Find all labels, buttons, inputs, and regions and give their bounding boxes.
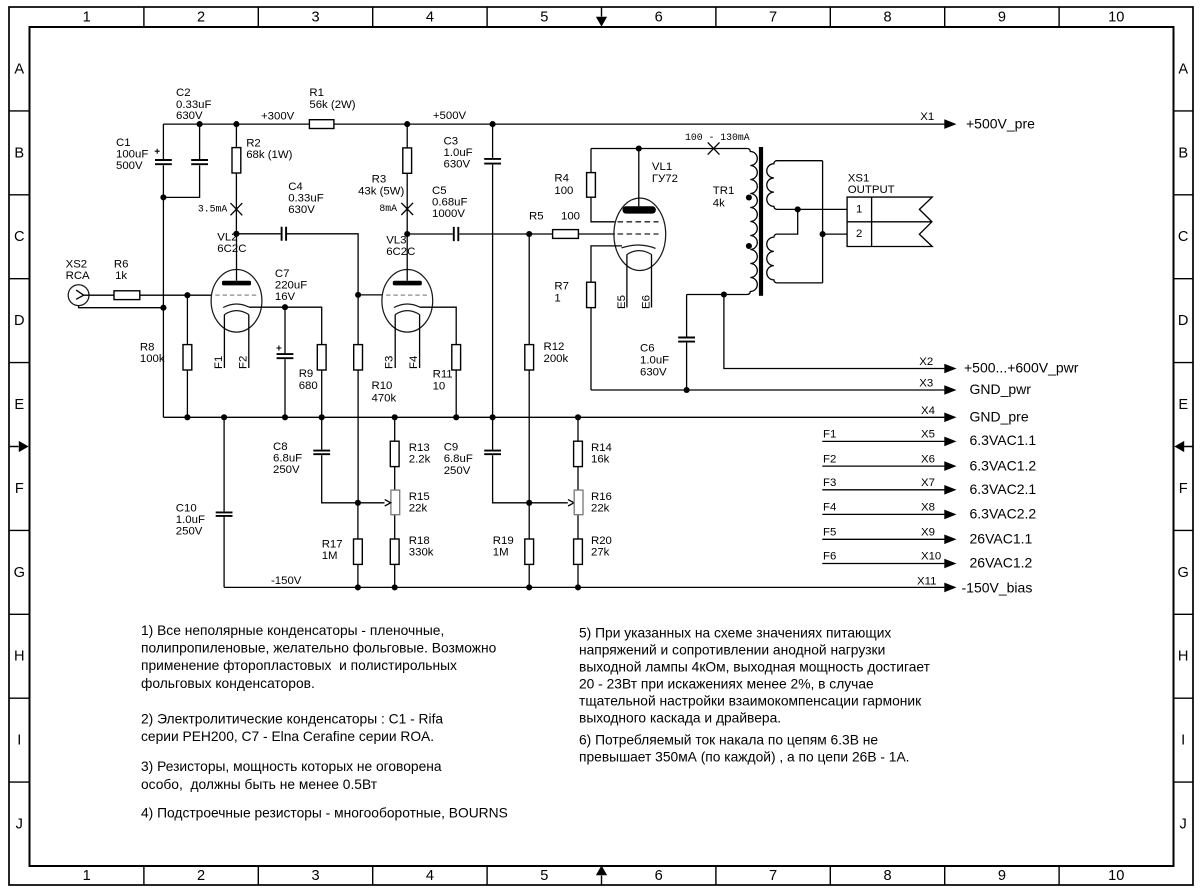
node primary tap 1 <box>746 194 752 200</box>
resistor R1 <box>309 120 334 129</box>
label R8 <box>140 342 165 366</box>
svg-text:F3: F3 <box>823 477 836 489</box>
label VL3 <box>386 235 415 259</box>
svg-text:F1: F1 <box>213 356 225 369</box>
transformer TR1 secondary 1 <box>767 161 847 210</box>
svg-text:R8: R8 <box>140 342 155 354</box>
svg-text:16V: 16V <box>275 291 296 303</box>
svg-text:F3: F3 <box>384 356 396 369</box>
svg-text:22k: 22k <box>591 503 610 515</box>
notes column 2 <box>579 625 931 764</box>
svg-text:XS2: XS2 <box>66 258 88 270</box>
svg-text:X11: X11 <box>917 575 936 587</box>
wire VL2 anode to C4 to VL3 grid <box>236 234 382 295</box>
wire R14 R16 R20 column <box>577 417 579 587</box>
svg-text:R6: R6 <box>114 258 129 270</box>
label VL2 <box>217 231 246 255</box>
notes column 1 <box>141 623 508 821</box>
svg-text:E6: E6 <box>641 295 653 309</box>
svg-text:100 - 130mA: 100 - 130mA <box>685 132 750 143</box>
svg-text:R7: R7 <box>554 280 569 292</box>
node C7 top <box>282 304 288 310</box>
wire secondary right link <box>823 161 848 283</box>
svg-text:R5: R5 <box>529 210 544 222</box>
connector XS2 RCA <box>68 285 89 306</box>
wire C6 branch <box>686 295 688 391</box>
capacitor C3 <box>484 159 501 164</box>
svg-text:7: 7 <box>769 10 777 26</box>
svg-text:E: E <box>14 397 24 413</box>
svg-text:R15: R15 <box>409 491 430 503</box>
wire C10 branch <box>223 417 225 587</box>
wire C7 branch <box>284 307 286 417</box>
wire X5-X10 heater stubs <box>822 441 944 563</box>
wire ground bus from C1 to GND rail <box>162 124 164 417</box>
node VL3 anode junction <box>404 231 410 237</box>
svg-text:2.2k: 2.2k <box>409 453 431 465</box>
svg-text:R14: R14 <box>591 442 612 454</box>
node C1-C2 junction <box>160 194 166 200</box>
svg-text:10: 10 <box>433 381 446 393</box>
wire VL2 cathode to R9 <box>249 307 322 344</box>
node rail R11 <box>453 414 459 420</box>
svg-text:3: 3 <box>311 10 319 26</box>
svg-text:H: H <box>14 649 25 665</box>
label R18 <box>409 535 434 559</box>
svg-text:C7: C7 <box>275 268 290 280</box>
svg-text:4: 4 <box>426 10 434 26</box>
node C3 top <box>490 121 496 127</box>
label C6 <box>640 342 669 378</box>
wire R10 branch <box>357 295 359 503</box>
svg-text:68k (1W): 68k (1W) <box>246 149 292 161</box>
svg-text:X10: X10 <box>921 551 941 563</box>
svg-text:630V: 630V <box>288 204 315 216</box>
triode VL2 <box>211 234 262 368</box>
resistor R14 <box>574 441 583 466</box>
svg-text:4k: 4k <box>713 198 725 210</box>
svg-text:16k: 16k <box>591 453 610 465</box>
wire C3 branch <box>492 124 494 417</box>
node C2 top <box>197 121 203 127</box>
svg-text:применение фторопластовых и п: применение фторопластовых и полистирольн… <box>141 658 457 673</box>
svg-text:F: F <box>1179 481 1188 497</box>
resistor R6 <box>114 291 140 300</box>
wire R19 branch <box>528 503 530 588</box>
capacitor C9 <box>484 451 501 455</box>
node -150 R19 <box>526 584 532 590</box>
node rail R8 <box>184 414 190 420</box>
svg-text:G: G <box>14 565 25 581</box>
label VL1 <box>652 161 678 185</box>
svg-text:R10: R10 <box>372 380 393 392</box>
transformer TR1 secondary 2 <box>767 209 823 283</box>
wire R3 branch <box>406 124 408 234</box>
capacitor C2 <box>191 160 208 164</box>
svg-text:выходной лампы 4кОм, выходная: выходной лампы 4кОм, выходная мощность д… <box>579 659 931 674</box>
label R4 <box>554 173 573 197</box>
wire VL3 cathode to R11 <box>420 307 457 344</box>
node shield to ground bus <box>160 305 166 311</box>
svg-text:VL2: VL2 <box>217 231 237 243</box>
resistor R20 <box>574 539 583 564</box>
svg-text:1: 1 <box>83 10 91 26</box>
resistor R4 <box>587 173 596 198</box>
label C8 <box>273 441 302 476</box>
svg-text:R9: R9 <box>299 368 314 380</box>
wire R17 branch <box>357 503 359 588</box>
wire X4 GND_pre rail <box>163 416 944 418</box>
svg-text:9: 9 <box>998 868 1006 884</box>
svg-text:R11: R11 <box>433 369 453 381</box>
svg-text:R20: R20 <box>591 535 612 547</box>
svg-text:5: 5 <box>540 10 548 26</box>
label R15 <box>409 491 430 515</box>
node R3 top <box>404 121 410 127</box>
svg-text:R17: R17 <box>322 539 343 551</box>
svg-text:I: I <box>1181 733 1185 749</box>
svg-text:R4: R4 <box>554 173 569 185</box>
svg-text:26VAC1.2: 26VAC1.2 <box>970 555 1033 571</box>
node -150 R17 <box>355 584 361 590</box>
wire R9 bottom <box>321 370 323 417</box>
svg-text:GND_pwr: GND_pwr <box>970 381 1032 397</box>
label R12 <box>544 341 569 365</box>
wire R2 branch <box>235 124 237 234</box>
svg-text:X1: X1 <box>920 111 934 123</box>
svg-text:+500...+600V_pwr: +500...+600V_pwr <box>964 360 1079 376</box>
svg-text:X9: X9 <box>921 527 935 539</box>
svg-text:1: 1 <box>554 292 560 304</box>
svg-text:470k: 470k <box>372 392 397 404</box>
svg-text:2: 2 <box>197 868 205 884</box>
svg-text:C8: C8 <box>273 441 288 453</box>
resistor R13 <box>390 441 399 466</box>
svg-text:10: 10 <box>1108 10 1124 26</box>
svg-text:+500V_pre: +500V_pre <box>966 115 1035 131</box>
svg-text:GND_pre: GND_pre <box>970 409 1029 425</box>
wire -150V rail X11 <box>224 586 944 588</box>
capacitor C6 <box>678 338 695 342</box>
node rail R14 <box>575 414 581 420</box>
svg-text:R13: R13 <box>409 442 430 454</box>
svg-text:9: 9 <box>998 10 1006 26</box>
svg-text:C4: C4 <box>288 181 303 193</box>
capacitor C4 <box>282 227 287 241</box>
svg-text:TR1: TR1 <box>713 185 735 197</box>
svg-text:4) Подстроечные резисторы - мн: 4) Подстроечные резисторы - многооборотн… <box>141 805 508 820</box>
svg-text:F4: F4 <box>823 502 836 514</box>
svg-text:E5: E5 <box>616 295 628 309</box>
node R12 top junction <box>526 231 532 237</box>
wiper R15 <box>358 500 391 506</box>
svg-text:1k: 1k <box>115 270 127 282</box>
label R2 <box>246 137 292 161</box>
svg-text:100: 100 <box>561 210 580 222</box>
trimmer R15 <box>391 490 400 515</box>
current cross 8mA <box>401 203 413 215</box>
svg-text:3: 3 <box>311 868 319 884</box>
svg-text:43k (5W): 43k (5W) <box>358 186 404 198</box>
svg-text:1M: 1M <box>322 550 338 562</box>
capacitor C7 <box>276 346 293 359</box>
resistor R7 <box>587 282 596 307</box>
svg-text:C: C <box>1178 229 1189 245</box>
svg-text:C3: C3 <box>444 135 459 147</box>
svg-text:-150V_bias: -150V_bias <box>962 579 1033 595</box>
svg-text:R19: R19 <box>493 535 514 547</box>
label R16 <box>591 491 612 515</box>
svg-text:7: 7 <box>769 868 777 884</box>
node VL2 grid junction <box>184 292 190 298</box>
node C6 bottom <box>684 387 690 393</box>
current cross 100-130mA <box>708 142 720 154</box>
capacitor C8 <box>313 451 330 455</box>
svg-text:VL1: VL1 <box>652 161 672 173</box>
svg-text:6: 6 <box>655 10 663 26</box>
svg-text:1.0uF: 1.0uF <box>640 354 669 366</box>
svg-text:680: 680 <box>299 380 318 392</box>
wire X3 GND_pwr rail <box>591 389 944 391</box>
svg-text:6.3VAC1.1: 6.3VAC1.1 <box>970 432 1037 448</box>
node -150 R18 <box>392 584 398 590</box>
label C1 <box>116 137 148 172</box>
svg-text:200k: 200k <box>544 353 569 365</box>
label XS1 <box>848 173 895 197</box>
label C5 <box>432 185 468 220</box>
svg-text:8: 8 <box>883 868 891 884</box>
wire +500V top rail <box>163 123 944 125</box>
svg-text:630V: 630V <box>640 366 667 378</box>
svg-text:превышает 350мА (по каждой) ,: превышает 350мА (по каждой) , а по цепи … <box>579 750 910 765</box>
wire C9 branch <box>493 417 530 503</box>
svg-text:VL3: VL3 <box>386 235 406 247</box>
svg-text:2: 2 <box>856 228 862 240</box>
wire C8 branch <box>322 417 358 503</box>
label R5 <box>529 210 580 222</box>
svg-text:330k: 330k <box>409 546 434 558</box>
svg-text:C2: C2 <box>176 87 191 99</box>
resistor R11 <box>452 345 461 370</box>
svg-text:J: J <box>16 817 23 833</box>
node primary tap 2 <box>746 243 752 249</box>
label XS2 <box>66 258 90 282</box>
svg-text:C6: C6 <box>640 342 655 354</box>
wire R8 branch <box>186 295 188 417</box>
node rail R13 <box>392 414 398 420</box>
svg-text:6) Потребляемый ток накала по: 6) Потребляемый ток накала по цепям 6.3В… <box>579 733 878 748</box>
label C10 <box>176 502 205 537</box>
wire X2 from primary bottom <box>724 295 945 369</box>
svg-text:тщательной настройки взаимоком: тщательной настройки взаимокомпенсации г… <box>579 693 922 708</box>
svg-text:выходного каскада и драйвера.: выходного каскада и драйвера. <box>579 710 781 725</box>
node R16 wiper junction <box>526 500 532 506</box>
svg-text:C5: C5 <box>432 185 447 197</box>
svg-text:6.3VAC2.2: 6.3VAC2.2 <box>970 506 1037 522</box>
svg-text:1.0uF: 1.0uF <box>444 147 473 159</box>
svg-text:A: A <box>14 61 24 77</box>
svg-text:G: G <box>1178 565 1189 581</box>
svg-text:22k: 22k <box>409 503 428 515</box>
svg-text:ГУ72: ГУ72 <box>652 173 678 185</box>
svg-text:RCA: RCA <box>66 270 90 282</box>
capacitor C5 <box>454 227 459 241</box>
svg-text:полипропиленовые, желательно ф: полипропиленовые, желательно фольговые. … <box>141 641 497 656</box>
svg-text:F2: F2 <box>237 356 249 369</box>
svg-text:C1: C1 <box>116 137 131 149</box>
pentode VL1 <box>614 149 666 308</box>
svg-text:100k: 100k <box>140 353 165 365</box>
svg-text:100: 100 <box>554 185 573 197</box>
resistor R18 <box>390 539 399 564</box>
node -150 R20 <box>575 584 581 590</box>
svg-text:B: B <box>14 145 24 161</box>
svg-text:1000V: 1000V <box>432 208 465 220</box>
svg-text:0.33uF: 0.33uF <box>176 99 212 111</box>
resistor R19 <box>525 539 534 564</box>
label C4 <box>288 181 324 216</box>
svg-text:особо, должны быть не менее 0: особо, должны быть не менее 0.5Вт <box>141 777 378 792</box>
svg-text:6C2C: 6C2C <box>386 246 415 258</box>
label R6 <box>114 258 129 282</box>
svg-text:8mA: 8mA <box>379 203 397 214</box>
resistor R10 <box>354 345 363 370</box>
label R7 <box>554 280 569 304</box>
svg-text:250V: 250V <box>444 465 471 477</box>
node R2 top <box>233 121 239 127</box>
node secondary pin1 junction <box>795 206 801 212</box>
svg-text:26VAC1.1: 26VAC1.1 <box>970 531 1033 547</box>
wire R11 bottom <box>455 370 457 417</box>
label R14 <box>591 442 612 466</box>
node primary bottom junction <box>721 291 727 297</box>
svg-text:B: B <box>1178 145 1188 161</box>
resistor R9 <box>317 345 326 370</box>
svg-text:X4: X4 <box>921 405 935 417</box>
wire C2 branch <box>163 124 199 197</box>
node rail C7 <box>282 414 288 420</box>
svg-text:630V: 630V <box>176 110 203 122</box>
svg-text:5: 5 <box>540 868 548 884</box>
svg-text:1) Все неполярные конденсаторы: 1) Все неполярные конденсаторы - пленочн… <box>141 623 444 638</box>
label R11 <box>433 369 453 393</box>
svg-text:5) При указанных на схеме знач: 5) При указанных на схеме значениях пита… <box>579 625 891 640</box>
svg-text:R1: R1 <box>309 87 324 99</box>
wire VL1 cathode to R7 <box>591 246 622 390</box>
svg-text:OUTPUT: OUTPUT <box>848 184 895 196</box>
svg-text:I: I <box>17 733 21 749</box>
svg-text:C9: C9 <box>444 442 459 454</box>
svg-text:1.0uF: 1.0uF <box>176 514 205 526</box>
wire VL3 anode to C5 to R5 to VL1 grid <box>407 233 615 235</box>
resistor R17 <box>354 539 363 564</box>
svg-text:X3: X3 <box>919 378 933 390</box>
svg-text:C10: C10 <box>176 502 197 514</box>
connector XS1 <box>847 197 932 246</box>
svg-text:6.8uF: 6.8uF <box>273 453 302 465</box>
svg-text:F4: F4 <box>408 356 420 369</box>
svg-text:1: 1 <box>856 203 862 215</box>
svg-text:2: 2 <box>197 10 205 26</box>
svg-text:10: 10 <box>1108 868 1124 884</box>
svg-text:серии PEH200, C7 - Elna Cerafi: серии PEH200, C7 - Elna Cerafine серии R… <box>141 729 434 744</box>
svg-text:F5: F5 <box>823 527 836 539</box>
label R10 <box>372 380 397 404</box>
node R15 wiper junction <box>355 500 361 506</box>
label C2 <box>176 87 212 122</box>
svg-text:R18: R18 <box>409 535 430 547</box>
resistor R5 <box>553 230 579 239</box>
label R20 <box>591 535 612 559</box>
svg-text:F6: F6 <box>823 551 836 563</box>
svg-text:X6: X6 <box>921 453 935 465</box>
svg-text:6: 6 <box>655 868 663 884</box>
svg-text:3.5mA: 3.5mA <box>198 203 228 214</box>
label R9 <box>299 368 318 392</box>
label R1 <box>309 87 355 111</box>
wire R12 branch <box>528 234 530 503</box>
svg-text:напряжений и сопротивлении ано: напряжений и сопротивлении анодной нагру… <box>579 642 885 657</box>
wiper R16 <box>529 500 574 506</box>
svg-text:100uF: 100uF <box>116 149 148 161</box>
label C9 <box>444 442 473 477</box>
svg-text:D: D <box>14 313 25 329</box>
trimmer R16 <box>574 490 583 515</box>
capacitor C10 <box>216 512 233 516</box>
svg-text:R12: R12 <box>544 341 565 353</box>
svg-text:F: F <box>15 481 24 497</box>
svg-text:R3: R3 <box>372 174 387 186</box>
svg-text:A: A <box>1178 61 1188 77</box>
svg-text:R16: R16 <box>591 491 612 503</box>
svg-text:фольговых конденсаторов.: фольговых конденсаторов. <box>141 676 315 691</box>
node VL3 grid junction <box>355 292 361 298</box>
svg-text:XS1: XS1 <box>848 173 870 185</box>
node VL1 anode <box>636 145 642 151</box>
svg-text:630V: 630V <box>444 159 471 171</box>
svg-text:4: 4 <box>426 868 434 884</box>
svg-text:X2: X2 <box>919 356 933 368</box>
svg-text:220uF: 220uF <box>275 279 307 291</box>
svg-text:X7: X7 <box>921 477 935 489</box>
svg-text:H: H <box>1178 649 1189 665</box>
svg-text:6.8uF: 6.8uF <box>444 453 473 465</box>
resistor R12 <box>525 345 534 370</box>
svg-text:20 - 23Вт при искажениях менее: 20 - 23Вт при искажениях менее 2%, в слу… <box>579 676 874 691</box>
svg-text:F1: F1 <box>823 429 836 441</box>
svg-text:27k: 27k <box>591 546 610 558</box>
svg-text:X8: X8 <box>921 502 935 514</box>
svg-text:500V: 500V <box>116 160 143 172</box>
svg-text:0.68uF: 0.68uF <box>432 197 468 209</box>
svg-text:+500V: +500V <box>433 110 467 122</box>
label R19 <box>493 535 514 559</box>
svg-text:250V: 250V <box>176 526 203 538</box>
label R3 <box>358 174 404 198</box>
transformer TR1 primary <box>687 149 758 295</box>
svg-text:56k (2W): 56k (2W) <box>309 99 355 111</box>
svg-text:8: 8 <box>883 10 891 26</box>
terminal arrows X1-X11 <box>944 119 956 592</box>
wire RCA signal to R6 <box>89 294 114 296</box>
svg-text:250V: 250V <box>273 464 300 476</box>
triode VL3 <box>382 234 433 368</box>
label C3 <box>444 135 473 170</box>
svg-text:R2: R2 <box>246 137 261 149</box>
svg-text:-150V: -150V <box>271 575 302 587</box>
svg-text:0.33uF: 0.33uF <box>288 192 324 204</box>
node rail R9 C8 <box>319 414 325 420</box>
